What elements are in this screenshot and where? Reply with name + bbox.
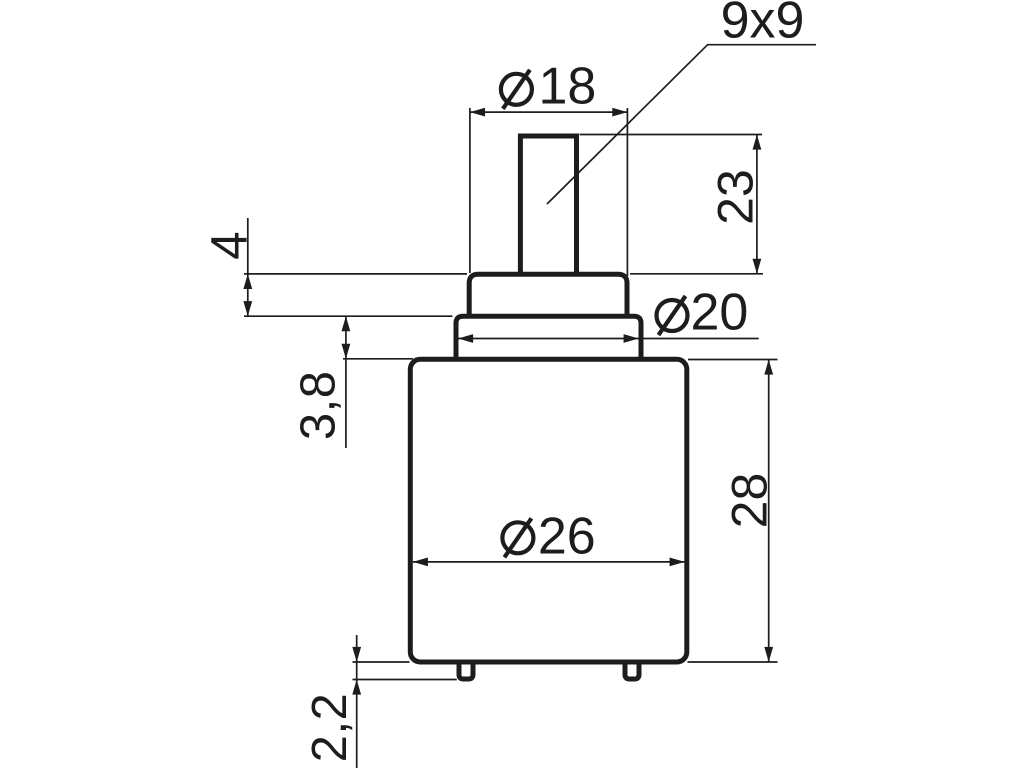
svg-text:4: 4 bbox=[201, 231, 258, 259]
svg-text:28: 28 bbox=[722, 473, 778, 529]
svg-text:20: 20 bbox=[690, 284, 748, 342]
svg-text:3,8: 3,8 bbox=[292, 370, 346, 440]
svg-text:23: 23 bbox=[708, 169, 764, 225]
svg-text:26: 26 bbox=[538, 508, 596, 566]
svg-text:2,2: 2,2 bbox=[303, 693, 357, 763]
svg-text:9x9: 9x9 bbox=[721, 0, 805, 49]
svg-text:18: 18 bbox=[538, 58, 596, 116]
